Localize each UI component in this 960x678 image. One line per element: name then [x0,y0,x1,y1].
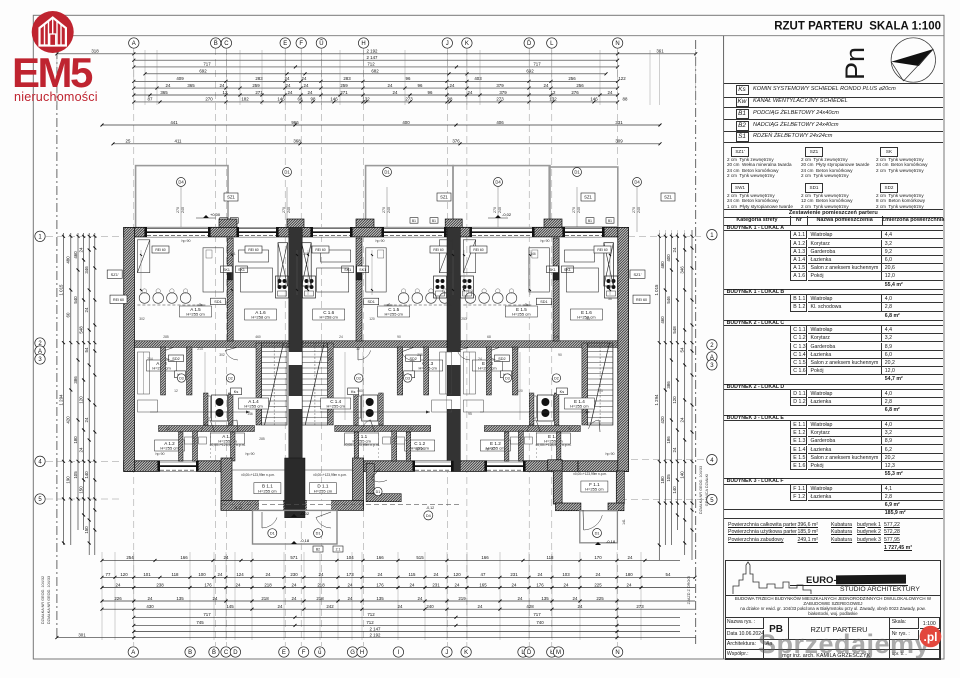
svg-text:240: 240 [577,207,581,213]
porch door arc B [262,518,277,529]
svg-text:95: 95 [586,317,590,321]
C bed [366,248,386,292]
corridor horizontal arrows [150,411,250,414]
svg-text:270: 270 [493,207,497,213]
svg-text:±0,00=+123,99m n.p.m.: ±0,00=+123,99m n.p.m. [241,473,275,477]
E pokoj bed [566,268,598,292]
grid circle C top [221,38,231,48]
svg-text:47: 47 [481,572,486,577]
bottom dimension line 2 [101,582,696,589]
svg-text:-0,18: -0,18 [300,538,310,543]
schedule row C 1.3 [790,343,807,351]
grid circle B bottom [185,647,195,657]
porch D1.1 room label [309,483,336,494]
porch B/D interior lines [232,469,285,471]
svg-text:135: 135 [541,596,549,601]
schedule row C 1.1 [790,326,807,334]
legend row S1 [724,131,943,144]
REI 60 labels inside [152,246,169,253]
svg-text:SZ1: SZ1 [227,195,235,200]
svg-text:368: 368 [293,139,301,144]
wall type SZ1' [731,147,749,157]
svg-text:24: 24 [378,572,383,577]
svg-text:745: 745 [196,620,204,625]
svg-text:173: 173 [346,572,354,577]
bottom dimension line 4 [101,604,696,611]
porch F bottom wall right segment [608,503,624,511]
svg-text:105: 105 [666,474,671,482]
svg-text:273: 273 [405,97,413,102]
E staircase [587,343,613,425]
E Kw box [500,371,511,378]
svg-text:H: H [360,650,364,656]
svg-text:H=258 cm: H=258 cm [251,315,270,320]
svg-text:95: 95 [468,412,472,416]
svg-text:hp 90: hp 90 [182,239,191,243]
A Kw box [175,371,186,378]
svg-text:E: E [283,41,287,47]
E closet shelves [463,352,475,394]
grid circle D̈ bottom [524,647,534,657]
porch F door arc [584,515,603,530]
room label C 1.6 [313,309,345,320]
svg-text:2 147: 2 147 [367,55,379,60]
dimension line 411 [112,139,662,146]
C stair wall [328,343,334,425]
svg-text:±0,00=+123,99m n.p.m.: ±0,00=+123,99m n.p.m. [313,473,347,477]
A bath wall [229,393,234,425]
svg-text:24: 24 [308,90,313,95]
window opening [412,461,453,472]
grid circle H top [358,38,368,48]
svg-text:D1: D1 [284,170,290,175]
property boundary line right [695,40,697,645]
svg-text:24: 24 [286,83,291,88]
svg-text:420: 420 [66,416,71,424]
svg-text:H: H [361,41,365,47]
svg-text:400: 400 [402,120,410,125]
svg-text:740: 740 [536,620,544,625]
svg-text:G: G [350,650,355,656]
svg-text:218: 218 [261,596,269,601]
svg-text:170: 170 [594,555,602,560]
wall type SZ1 [805,147,823,157]
svg-text:548: 548 [78,326,83,334]
svg-text:24: 24 [544,83,549,88]
svg-text:H=255 cm: H=255 cm [186,312,205,317]
svg-text:132: 132 [549,97,557,102]
schedule row C 1.4 [790,351,807,359]
room label E 1.5 [505,306,537,317]
svg-text:24: 24 [319,572,324,577]
schedule row E 1.5 [790,454,807,462]
A wardrobe [137,240,149,273]
svg-text:145: 145 [226,604,234,609]
room label A 1.2 [155,440,185,451]
studio skyline logo [725,560,835,596]
svg-text:ZJAZD Z DROGI: ZJAZD Z DROGI [687,576,691,605]
svg-text:REI 60: REI 60 [315,248,325,252]
legend row Ks [724,83,943,98]
svg-text:96: 96 [428,90,433,95]
row grid circle 2 right [707,340,717,350]
right dim line 1 [654,233,661,560]
svg-text:259: 259 [252,83,260,88]
svg-text:150: 150 [84,526,89,534]
svg-text:Ks: Ks [560,390,565,394]
svg-text:180: 180 [73,436,78,444]
A pokoj bed [241,268,273,292]
svg-text:D1: D1 [574,170,580,175]
left dim line 2 [66,233,73,545]
grid circle A bottom [128,647,138,657]
terrace 3 outline [453,166,550,228]
EM5 logo text [12,56,98,90]
svg-text:±0,00=+123,99m n.p.m.: ±0,00=+123,99m n.p.m. [573,472,607,476]
svg-text:120: 120 [369,317,375,321]
wall type SW1 [731,183,749,193]
kitchen counter with hob [276,276,289,298]
grid circle ǖ bottom [315,647,325,657]
svg-text:24: 24 [410,582,415,587]
svg-text:2 192: 2 192 [367,49,379,54]
svg-text:B: B [188,650,192,656]
E bath wall 2 [529,393,534,425]
wall type SD2 [880,183,898,193]
building outer wall top [124,227,629,237]
svg-text:180: 180 [660,476,665,484]
porch F left wall [553,460,562,504]
porch F wall corner block [548,460,562,471]
svg-text:403: 403 [474,76,482,81]
porch B1.1 room label [254,483,281,494]
svg-text:150: 150 [78,486,83,494]
E Ks box [556,388,567,395]
svg-text:682: 682 [371,69,379,74]
svg-text:ǖ: ǖ [318,649,321,656]
svg-text:151: 151 [327,357,333,361]
row grid circle 1 left [35,231,45,241]
svg-text:D1: D1 [384,170,390,175]
grid circle C bottom [221,647,231,657]
svg-text:D: D [233,650,238,656]
svg-text:101: 101 [143,572,151,577]
svg-text:H=255 cm: H=255 cm [585,487,604,492]
C Ks box [348,388,359,395]
E lower partition 2 [556,432,561,461]
E corridor wall [512,347,518,395]
dimension line 441 [101,120,662,127]
C lower wall [335,426,431,432]
svg-text:218: 218 [317,582,325,587]
svg-text:218: 218 [316,596,324,601]
svg-text:hp 90: hp 90 [541,239,550,243]
STUDIO ARCHITEKTURY [830,586,930,593]
schedule row B 1.1 [790,295,807,303]
svg-text:259: 259 [340,83,348,88]
svg-text:283: 283 [343,76,351,81]
svg-text:240: 240 [287,207,291,213]
window opening [144,227,210,237]
A bath wall 2 [204,393,209,425]
svg-text:H=255 cm: H=255 cm [258,488,277,493]
svg-text:361: 361 [656,49,664,54]
svg-text:231: 231 [432,582,440,587]
A salon wall [227,238,233,341]
C pokoj bed [317,268,349,292]
schedule total row [724,312,943,321]
row grid circle 5 left [35,494,45,504]
svg-text:548: 548 [672,326,677,334]
svg-text:98: 98 [311,97,316,102]
row grid circle 3 right [707,360,717,370]
grid circle N bottom [612,647,622,657]
A chimney SK1 [227,266,233,280]
C lower partition 1 [406,432,411,461]
svg-text:SK1: SK1 [223,268,230,272]
grid circle M bottom [553,647,563,657]
svg-text:166: 166 [376,555,384,560]
svg-text:DZIAŁKA NR GEOD. 104/33: DZIAŁKA NR GEOD. 104/33 [699,466,703,514]
REI 60 label right [633,295,650,303]
svg-text:-0,02: -0,02 [502,212,512,217]
svg-text:SD1: SD1 [540,300,547,304]
svg-text:DZIAŁKA NR GEOD. 104/32: DZIAŁKA NR GEOD. 104/32 [41,576,45,624]
A Ks box [231,388,242,395]
svg-text:SZ1: SZ1 [664,195,672,200]
schedule section BUDYNEK 2 - LOKAL C [724,320,943,326]
svg-text:692: 692 [199,69,207,74]
schedule row E 1.4 [790,446,807,454]
svg-text:68: 68 [166,427,170,431]
E lower partition 1 [504,432,509,461]
svg-text:24: 24 [84,307,89,312]
svg-text:214: 214 [147,357,153,361]
svg-text:Ǖ: Ǖ [319,40,323,47]
C corridor wall [397,347,403,395]
grid circle Ł bottom [547,647,557,657]
svg-text:D3: D3 [405,376,410,380]
svg-text:24: 24 [304,83,309,88]
svg-text:24: 24 [236,582,241,587]
E salon wall [553,238,559,341]
svg-text:24: 24 [348,582,353,587]
svg-text:146: 146 [590,97,598,102]
svg-text:D1: D1 [316,532,321,536]
svg-text:24: 24 [672,447,677,452]
svg-text:460: 460 [73,251,78,259]
svg-text:68: 68 [487,335,491,339]
E lower wall 2 [518,431,523,461]
svg-text:256: 256 [568,76,576,81]
svg-text:190: 190 [66,476,71,484]
SZ1 label boxes above wall [224,193,238,201]
chimney stub above wall party1 [287,219,304,228]
svg-text:90: 90 [397,335,401,339]
svg-text:96: 96 [406,76,411,81]
svg-text:SD2: SD2 [172,357,179,361]
svg-text:230: 230 [290,572,298,577]
svg-text:D3: D3 [505,376,510,380]
A lower wall [159,426,255,432]
compass north arrow [880,28,950,98]
svg-text:515: 515 [416,555,424,560]
svg-text:218: 218 [264,582,272,587]
svg-text:24: 24 [116,582,121,587]
A stair wall [256,343,262,425]
svg-text:254: 254 [126,555,134,560]
svg-text:±0,00=+123,99m n.p.m.: ±0,00=+123,99m n.p.m. [344,443,380,447]
watermark .pl red circle [917,623,945,651]
level marker +0.00 right [488,212,512,218]
svg-text:D4: D4 [178,180,184,185]
svg-text:B1: B1 [608,219,612,223]
schedule row D 1.1 [790,390,807,398]
kitchen counter with hob [461,276,474,298]
row grid circle A left [35,346,45,356]
C bath wall [379,393,384,425]
svg-text:hp 90: hp 90 [416,447,425,451]
svg-text:717: 717 [203,612,211,617]
porch door arc D [316,518,331,529]
svg-text:24: 24 [573,596,578,601]
svg-text:B̈: B̈ [214,40,218,47]
svg-text:406: 406 [496,120,504,125]
terrace 4 outline [549,167,618,227]
chimney stub above wall party2 [445,219,462,228]
svg-text:146: 146 [277,97,285,102]
bottom dimension line 5 [132,612,680,619]
window opening [469,227,534,237]
svg-text:24: 24 [468,90,473,95]
terrace 2 outline [366,166,453,228]
legend row B2 [724,119,943,132]
dimension line 270 [132,97,628,104]
svg-text:24: 24 [278,604,283,609]
svg-text:175: 175 [553,335,559,339]
svg-text:+0,00: +0,00 [210,212,221,217]
svg-text:D1: D1 [376,490,381,494]
svg-text:M: M [556,650,561,656]
terrace leader lines [180,187,182,232]
svg-text:B̈: B̈ [212,649,216,656]
chimney stub above wall bldg2 H [356,219,374,228]
svg-text:105: 105 [73,471,78,479]
svg-text:253: 253 [597,389,603,393]
svg-text:175: 175 [407,427,413,431]
schedule section BUDYNEK 3 - LOKAL F [724,478,943,484]
svg-text:270: 270 [205,97,213,102]
svg-text:SK1: SK1 [564,268,571,272]
porch F right wall [616,471,624,504]
svg-text:REI 60: REI 60 [248,248,258,252]
svg-text:400: 400 [666,254,671,262]
svg-text:REI 60: REI 60 [597,248,607,252]
svg-text:54: 54 [680,347,685,352]
svg-text:SZ1': SZ1' [633,272,641,277]
svg-text:253: 253 [461,317,467,321]
svg-text:2 192: 2 192 [370,632,382,637]
svg-text:270: 270 [382,207,386,213]
C door arc room [362,420,371,432]
svg-text:SD1: SD1 [214,300,221,304]
room label C 1.4 [321,398,351,409]
right dim line 4 [672,233,679,530]
bottom dimension line 7 [132,626,680,633]
svg-text:24: 24 [302,76,307,81]
svg-text:124: 124 [236,572,244,577]
A corridor wall [187,347,193,395]
svg-text:56: 56 [568,427,572,431]
schedule row C 1.6 [790,367,807,375]
svg-text:24: 24 [84,417,89,422]
E stair wall [582,343,588,425]
grid circle J top [442,38,452,48]
room label C 1.5 [378,306,410,317]
svg-text:270: 270 [572,207,576,213]
svg-text:24: 24 [398,604,403,609]
C chimney SK1 [356,266,362,280]
window opening [562,227,604,237]
svg-text:225: 225 [596,596,604,601]
E door arc corridor [487,352,500,361]
svg-text:273: 273 [636,604,644,609]
schedule section BUDYNEK 1 - LOKAL A [724,225,943,231]
svg-text:H=258 cm: H=258 cm [320,315,339,320]
grid circle B̈ top [211,38,221,48]
svg-text:96: 96 [418,83,423,88]
svg-text:140: 140 [672,486,677,494]
svg-text:D̈: D̈ [527,649,532,656]
A closet shelves [138,352,150,394]
room label C 1.1 [345,433,379,444]
Sprzedajemy watermark text [758,629,930,660]
svg-text:.pl: .pl [924,630,938,644]
svg-text:420: 420 [660,416,665,424]
schedule section BUDYNEK 3 - LOKAL E [724,415,943,421]
svg-text:24: 24 [266,572,271,577]
svg-text:271: 271 [340,90,348,95]
C bath wall 2 [354,393,359,425]
schedule row F 1.1 [790,485,807,493]
row grid circle 1 right [707,230,717,240]
row grid circle 4 right [707,455,717,465]
svg-text:F: F [299,41,303,47]
svg-text:Ks: Ks [234,390,239,394]
A lower partition 2 [231,432,236,461]
svg-text:24: 24 [348,596,353,601]
svg-text:24: 24 [564,582,569,587]
schedule row B 1.2 [790,303,807,311]
row grid circle 4 left [35,456,45,466]
schedule row E 1.2 [790,429,807,437]
svg-text:120: 120 [78,396,83,404]
kitchen counter with hob [605,276,618,298]
svg-text:±0,00=+123,99m n.p.m.: ±0,00=+123,99m n.p.m. [210,443,246,447]
svg-text:100: 100 [198,572,206,577]
svg-text:231: 231 [510,572,518,577]
svg-text:77: 77 [106,572,111,577]
svg-text:480: 480 [66,256,71,264]
grid circle D̈ top [524,38,534,48]
room label A 1.4 [239,398,269,409]
svg-text:H=255 cm: H=255 cm [512,312,531,317]
svg-text:24: 24 [478,357,482,361]
svg-text:460: 460 [255,335,261,339]
side entry E niche [366,464,374,502]
svg-text:24: 24 [450,83,455,88]
svg-text:225: 225 [594,582,602,587]
